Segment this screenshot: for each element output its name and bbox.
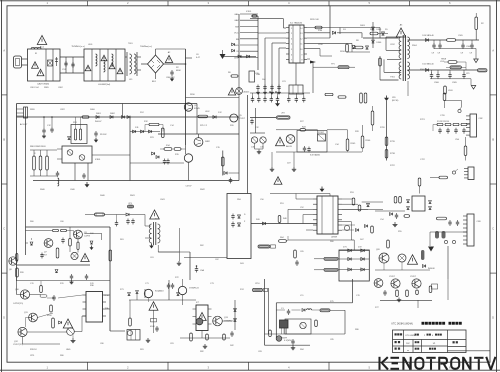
svg-text:R9 302: R9 302 [100,134,107,136]
svg-text:KTC 2K0841 (M24A): KTC 2K0841 (M24A) [392,323,414,326]
svg-text:C5707: C5707 [186,186,193,188]
svg-text:IC801: IC801 [95,159,101,161]
svg-text:0.1(50V): 0.1(50V) [284,340,292,342]
svg-text:B: B [3,137,5,141]
svg-text:K15A60U: K15A60U [155,290,164,293]
svg-text:B: B [492,137,494,141]
svg-text:A1015: A1015 [286,145,293,148]
svg-text:VCC: VCC [234,33,239,35]
svg-text:R801 R802 R803: R801 R802 R803 [30,146,46,148]
svg-text:C5707: C5707 [239,118,246,120]
svg-text:L.BLKER(Val): L.BLKER(Val) [98,84,111,86]
svg-text:C4793(TO): C4793(TO) [13,303,23,305]
svg-text:C806 102: C806 102 [166,77,176,79]
svg-text:A1015: A1015 [244,91,251,94]
svg-text:R7A: R7A [318,29,323,32]
svg-text:C5707(TO): C5707(TO) [13,344,23,346]
svg-text:GND: GND [66,349,71,351]
svg-text:C: C [3,227,5,231]
svg-text:D11 SB5L40: D11 SB5L40 [422,64,434,66]
svg-text:GT30F124: GT30F124 [189,288,199,290]
svg-text:C9A: C9A [200,269,205,272]
svg-text:C801 104: C801 104 [30,87,40,89]
svg-text:C4793: C4793 [84,236,91,238]
svg-text:IC3 KIA431: IC3 KIA431 [310,154,321,157]
svg-text:AC-DET: AC-DET [20,123,28,126]
svg-text:KTC-LM24: KTC-LM24 [406,335,417,337]
svg-text:IC801: IC801 [246,11,252,13]
svg-text:R33 1K: R33 1K [30,349,37,351]
svg-text:xx: xx [407,350,409,352]
svg-text:C5707: C5707 [410,276,417,278]
svg-text:LM339: LM339 [331,237,338,239]
svg-text:TUNING (u.s): TUNING (u.s) [71,46,85,48]
svg-text:24C: 24C [406,343,410,345]
svg-text:700/Rm(u.s): 700/Rm(u.s) [140,46,152,48]
svg-text:CAUTION(M): CAUTION(M) [37,83,49,86]
svg-text:IN4007: IN4007 [95,121,102,123]
svg-text:680K: 680K [176,70,181,72]
svg-text:R815 10K: R815 10K [310,19,320,21]
svg-text:R25 2.2: R25 2.2 [200,125,208,127]
svg-text:C: C [492,227,494,231]
svg-text:SW: SW [235,26,238,28]
svg-text:D: D [3,316,5,320]
svg-text:PC817: PC817 [318,132,325,134]
svg-text:D10 SB5L40: D10 SB5L40 [422,35,434,37]
svg-text:A: A [492,48,494,52]
svg-text:IC1 TEA1530: IC1 TEA1530 [290,22,303,25]
svg-text:A: A [3,48,5,52]
svg-text:IN5408: IN5408 [428,268,435,270]
svg-text:C5707: C5707 [389,276,396,278]
svg-text:C6B: C6B [256,74,261,76]
svg-text:TDA: TDA [105,307,110,310]
svg-text:D: D [492,316,494,320]
svg-text:R1 R2 R3 R4: R1 R2 R3 R4 [437,121,450,123]
svg-text:(BC10): (BC10) [392,100,399,102]
svg-text:K2645: K2645 [194,108,201,110]
